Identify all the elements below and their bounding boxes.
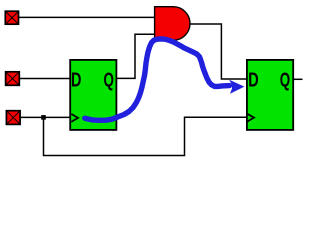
U2 clock triangle <box>247 114 254 122</box>
svg-text:Q: Q <box>280 70 290 92</box>
svg-text:D: D <box>71 70 81 92</box>
input pin I2 red square <box>6 72 20 86</box>
junction dot on clock net <box>41 115 46 120</box>
input pin I3 red square <box>6 111 20 125</box>
input pin I1 red square <box>5 11 19 24</box>
svg-text:Q: Q <box>104 70 114 92</box>
wire net6 U2 Q output stub <box>294 78 303 80</box>
wire net4 from U1 Q output up to AND gate input B <box>117 34 155 78</box>
annotation blue arrow stroke <box>85 39 230 120</box>
U1 clock triangle <box>71 114 78 122</box>
annotation blue arrow head <box>229 80 244 94</box>
wire net5 from AND gate output to U2 D input <box>190 24 247 79</box>
wire clock net from input I3 to U1 clock <box>21 116 71 118</box>
svg-text:D: D <box>248 70 258 92</box>
wire net2 from input I2 to U1 D input <box>20 78 71 80</box>
D flip-flop U2 body <box>247 60 293 130</box>
wire net1 from input I1 to AND gate input A <box>19 16 155 18</box>
D flip-flop U1 body <box>70 60 116 130</box>
AND gate G1 <box>155 7 190 41</box>
wire clock net branch down and across to U2 clock <box>44 117 247 155</box>
